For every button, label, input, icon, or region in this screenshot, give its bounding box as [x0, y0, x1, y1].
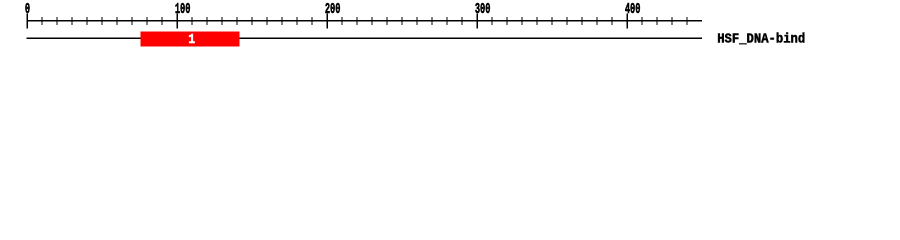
svg-text:HSF_DNA-bind: HSF_DNA-bind	[717, 31, 805, 47]
protein backbone line left segment	[27, 38, 141, 40]
protein backbone line right segment	[239, 38, 702, 40]
ruler major tick 0	[27, 13, 29, 28]
ruler major tick 300	[477, 13, 479, 28]
svg-text:0: 0	[25, 1, 30, 18]
ruler baseline	[27, 20, 703, 22]
svg-text:400: 400	[625, 1, 641, 18]
ruler major tick 200	[327, 13, 329, 28]
svg-text:1: 1	[188, 31, 195, 48]
svg-text:100: 100	[175, 1, 191, 18]
domain box (red)	[140, 31, 239, 46]
svg-text:200: 200	[325, 1, 341, 18]
ruler minor ticks	[41, 17, 687, 25]
ruler major tick 100	[177, 13, 179, 28]
svg-text:300: 300	[475, 1, 491, 18]
ruler major tick 400	[627, 13, 629, 28]
